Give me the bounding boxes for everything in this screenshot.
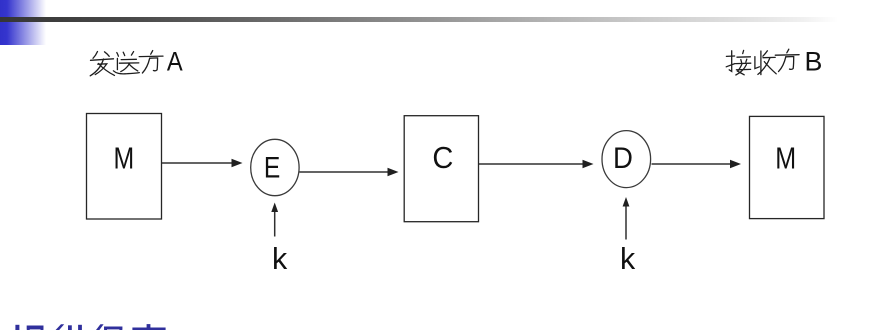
wire E to C [300, 171, 389, 173]
box M2 (plaintext at receiver) [750, 116, 825, 218]
ellipse D (decryption) [602, 131, 651, 188]
header blue gradient corner block [0, 0, 48, 45]
char 方 (receiver label) [775, 49, 799, 71]
partial char 密 (bottom blue title) [132, 324, 165, 330]
svg-text:M: M [775, 142, 796, 175]
svg-text:M: M [113, 143, 134, 176]
arrowhead k2 to D [623, 197, 630, 207]
arrowhead D to M2 [730, 160, 741, 168]
arrowhead E to C [388, 168, 399, 176]
svg-text:E: E [264, 152, 280, 185]
svg-text:C: C [432, 142, 453, 175]
char 发 (sender label) [90, 52, 114, 76]
svg-text:k: k [272, 242, 288, 276]
partial char 提 (bottom blue title) [15, 325, 43, 330]
svg-text:B: B [804, 47, 822, 77]
header horizontal rule (dark fading right) [0, 17, 892, 21]
wire C to D [479, 163, 583, 165]
wire k2 up to D [625, 207, 627, 240]
ellipse E (encryption) [251, 139, 299, 195]
svg-text:D: D [613, 142, 633, 175]
char 收 (receiver label) [755, 51, 776, 75]
svg-text:A: A [167, 47, 183, 77]
box M1 (plaintext at sender) [87, 114, 162, 220]
partial char 保 (bottom blue title) [96, 324, 122, 330]
char 接 (receiver label) [726, 50, 751, 75]
arrowhead M1 to E [232, 159, 243, 167]
arrowhead C to D [583, 160, 594, 168]
wire M1 to E [162, 162, 232, 164]
wire D to M2 [652, 163, 731, 165]
char 方 (sender label) [139, 51, 163, 73]
arrowhead k1 to E [271, 203, 278, 213]
box C (ciphertext) [404, 116, 478, 222]
char 送 (sender label) [113, 52, 139, 74]
wire k1 up to E [274, 212, 276, 237]
svg-text:k: k [620, 242, 636, 276]
partial char 供 (bottom blue title) [56, 324, 82, 330]
